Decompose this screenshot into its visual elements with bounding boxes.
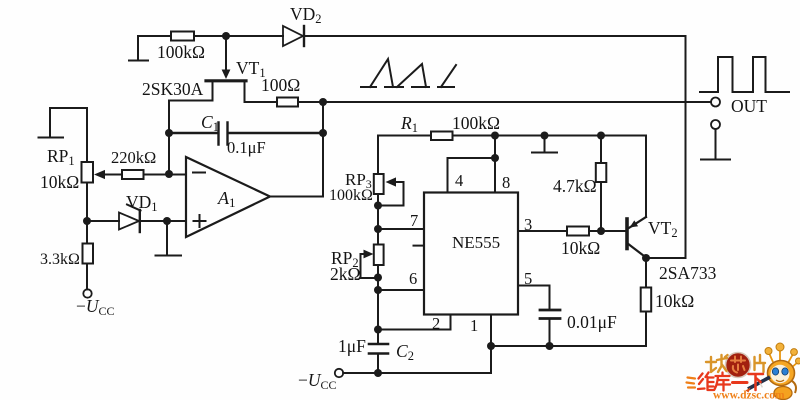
wire (vertical 100ohm node down to op-amp output)	[322, 102, 324, 196]
node (4.7k top junction)	[597, 132, 605, 140]
terminal -Ucc (left, open circle)	[83, 289, 91, 297]
svg-text:1μF: 1μF	[338, 336, 366, 356]
transistor VT2 (2SA733 PNP)	[627, 217, 646, 258]
terminal OUT (upper circle)	[711, 98, 720, 107]
ground (op-amp plus input)	[156, 221, 182, 256]
node (100ohm right junction)	[319, 98, 327, 106]
terminal OUT (lower circle)	[711, 120, 720, 129]
node (RP2 wiper tie)	[374, 274, 382, 282]
node (VD1 anode junction)	[83, 217, 91, 225]
svg-text:−UCC: −UCC	[298, 370, 337, 392]
wire (pin 3 to 10k)	[518, 230, 567, 232]
watermark text 下 (red strokes)	[749, 374, 764, 390]
wire (R1 to pins 4/8 rail)	[453, 135, 647, 137]
node (pin 7 junction)	[374, 225, 382, 233]
node (gate top junction)	[222, 32, 230, 40]
svg-text:−UCC: −UCC	[76, 296, 115, 318]
wire (left bus x=378 vertical segments)	[377, 136, 379, 374]
ground (mid, right of pin 8)	[532, 136, 557, 153]
svg-text:3.3kΩ: 3.3kΩ	[40, 251, 80, 268]
wire (VD2 top rail from gate node)	[226, 35, 283, 37]
svg-text:100Ω: 100Ω	[261, 75, 300, 95]
svg-text:7: 7	[410, 211, 418, 230]
wire (3.3k to -Ucc terminal)	[86, 264, 88, 290]
watermark red circle badge with 芯	[726, 353, 751, 378]
potentiometer RP1 box	[82, 162, 94, 183]
svg-text:C1: C1	[201, 112, 219, 134]
wire (bottom rail to 10k collector resistor)	[491, 345, 646, 347]
svg-text:5: 5	[524, 269, 532, 288]
wire (220k to inverting node)	[144, 174, 187, 176]
resistor 100ohm	[277, 98, 298, 107]
IC NE555	[424, 193, 518, 315]
capacitor 0.01u	[540, 310, 560, 346]
wire (RP3 wiper arrow and tail)	[378, 177, 404, 205]
wire (-Ucc rail to pin 1)	[343, 315, 491, 374]
svg-text:220kΩ: 220kΩ	[111, 148, 156, 167]
wire (pin 8 drop)	[494, 136, 496, 193]
svg-text:www.dzsc.com: www.dzsc.com	[713, 390, 785, 400]
resistor 220k	[122, 170, 144, 179]
svg-text:10kΩ: 10kΩ	[40, 172, 79, 192]
svg-text:0.01μF: 0.01μF	[567, 312, 617, 332]
svg-text:R1: R1	[400, 113, 418, 135]
wire (10k to VT2 base)	[589, 230, 626, 232]
svg-text:C2: C2	[396, 341, 414, 363]
wire (gate vertical with arrow into VT1)	[222, 36, 231, 79]
node (C1 right junction)	[319, 129, 327, 137]
resistor 3.3k	[83, 244, 94, 264]
node (VT2 collector junction)	[642, 254, 650, 262]
ground (top-left, above 100k)	[129, 36, 148, 61]
diode VD1	[119, 205, 141, 233]
svg-text:OUT: OUT	[731, 96, 767, 116]
svg-text:4: 4	[455, 171, 463, 190]
capacitor C1	[169, 123, 323, 145]
svg-text:RP1: RP1	[47, 146, 75, 168]
svg-text:10kΩ: 10kΩ	[561, 238, 600, 258]
node (0.01u bottom junction)	[546, 342, 554, 350]
node (RP3 wiper tie)	[374, 202, 382, 210]
node (pin 2 tie on bus)	[374, 326, 382, 334]
pin stub (NE555 left unused pin)	[414, 245, 424, 247]
watermark text 片 (gold strokes)	[755, 355, 766, 372]
wire (pin 5 to 0.01u)	[518, 286, 550, 310]
svg-text:100kΩ: 100kΩ	[329, 187, 373, 204]
svg-text:VD1: VD1	[126, 192, 158, 214]
node (pin8 rail junction)	[491, 132, 499, 140]
node (pin4/8 tie)	[491, 154, 499, 162]
svg-text:10kΩ: 10kΩ	[655, 291, 694, 311]
wire (pin 7)	[378, 228, 424, 230]
node (pin 6 junction)	[374, 286, 382, 294]
svg-text:2SA733: 2SA733	[659, 263, 717, 283]
potentiometer RP2 box	[374, 245, 384, 266]
wire (op-amp output)	[270, 196, 323, 198]
wire (VD2 cathode rail right then down to VT2 collector node)	[304, 36, 686, 258]
waveform (sawtooth teeth mid-top)	[361, 59, 456, 87]
svg-text:4.7kΩ: 4.7kΩ	[553, 176, 597, 196]
watermark text 库 (red strokes)	[715, 373, 731, 391]
op-amp A1	[186, 157, 270, 237]
wire (RP1 wiper arrow from 220k)	[94, 170, 122, 179]
node (base/4.7k junction)	[597, 227, 605, 235]
watermark speed dashes	[687, 378, 696, 388]
wire (pin 4 branch)	[448, 158, 496, 193]
svg-text:2kΩ: 2kΩ	[330, 264, 361, 284]
resistor 10k (pin3-base)	[567, 227, 589, 236]
node (mid ground junction)	[541, 132, 549, 140]
svg-text:A1: A1	[217, 188, 236, 210]
wire (RP3 bus top corner to R1)	[378, 135, 431, 137]
wire (100k to gate node)	[194, 35, 226, 37]
watermark text 找 (gold strokes)	[706, 355, 728, 372]
wire (to VD1)	[87, 220, 119, 222]
ground (below OUT lower terminal)	[701, 129, 730, 160]
resistor 4.7k	[596, 136, 607, 232]
wire (RP2 wiper arrow and tail)	[361, 250, 379, 278]
wire (100ohm to OUT terminal)	[298, 101, 711, 103]
diode VD2	[283, 26, 304, 46]
node (C1 left junction)	[165, 129, 173, 137]
wire (RP1 bottom bus down)	[86, 183, 88, 244]
svg-text:NE555: NE555	[452, 233, 500, 252]
wire (pin 6)	[378, 289, 424, 291]
svg-text:6: 6	[409, 269, 417, 288]
wire (rail corner down to VT2 emitter)	[645, 136, 647, 218]
capacitor C2	[369, 344, 388, 354]
svg-text:8: 8	[502, 173, 510, 192]
waveform (square wave at OUT)	[700, 57, 789, 92]
svg-text:3: 3	[524, 215, 532, 234]
wire (VT1 source leg to C1/minus bus)	[169, 82, 213, 174]
wire (RP1 top hook to ground)	[39, 108, 88, 162]
wire (pin 2 down and left to bus)	[378, 315, 451, 330]
resistor 10k (collector)	[641, 258, 652, 346]
wire (VD1 to plus node)	[140, 220, 186, 222]
svg-text:VT2: VT2	[648, 218, 678, 240]
svg-text:1: 1	[470, 316, 478, 335]
watermark mascot	[746, 343, 800, 400]
svg-text:100kΩ: 100kΩ	[452, 113, 500, 133]
svg-text:2: 2	[432, 314, 440, 333]
svg-text:2SK30A: 2SK30A	[142, 79, 204, 99]
resistor R1 100k	[431, 132, 453, 141]
svg-text:100kΩ: 100kΩ	[157, 42, 205, 62]
wire (collector to VD2 rail corner)	[646, 257, 686, 259]
resistor 100k (top-left)	[171, 32, 194, 41]
wire (top-left ground to 100k)	[138, 35, 171, 37]
node (pin 1 / bottom rail junction)	[487, 342, 495, 350]
svg-text:0.1μF: 0.1μF	[227, 138, 266, 157]
watermark text 维 (red strokes)	[698, 373, 714, 391]
terminal -Ucc (bottom, open circle)	[335, 369, 343, 377]
node (op-amp plus input)	[163, 217, 171, 225]
watermark (dzsc logo bottom right)	[687, 343, 800, 400]
transistor VT1 (2SK30A FET channel bar)	[206, 79, 246, 82]
potentiometer RP3 box	[374, 174, 384, 194]
node (op-amp inverting input)	[165, 170, 173, 178]
watermark text 一 (red stroke)	[733, 381, 748, 384]
svg-text:VD2: VD2	[290, 4, 322, 26]
wire (VT1 drain leg to 100ohm)	[245, 82, 278, 102]
node (bus to -Ucc rail)	[374, 369, 382, 377]
